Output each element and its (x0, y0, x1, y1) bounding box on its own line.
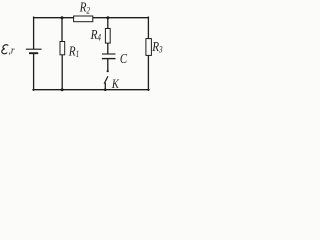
wire capacitor to switch contact (107, 59, 109, 71)
resistor R2 (74, 16, 93, 22)
switch K top contact dot (107, 70, 109, 72)
junction node top rail / R1 branch (61, 16, 64, 19)
wire middle branch top (107, 17, 109, 28)
background (0, 0, 164, 98)
wire right branch top (147, 17, 149, 38)
svg-text:,r: ,r (9, 45, 15, 57)
svg-text:C: C (120, 51, 128, 66)
wire switch bottom stub (104, 83, 106, 90)
capacitor C bottom plate (102, 58, 116, 60)
wire left branch lower (battery bottom) (33, 54, 35, 90)
svg-text:K: K (111, 77, 120, 91)
wire R4 to capacitor (107, 43, 109, 53)
wire bottom rail (33, 89, 149, 91)
resistor R3 (146, 39, 152, 56)
resistor R4 (105, 29, 110, 44)
battery cell E,r long plate (26, 48, 42, 50)
junction node top rail / middle branch (106, 16, 109, 19)
wire left branch upper (battery top) (33, 17, 35, 49)
junction node bottom rail / switch branch (104, 88, 107, 91)
label EMF script E (2, 45, 8, 54)
switch K blade (104, 76, 108, 83)
capacitor C top plate (102, 53, 116, 55)
wire R1 branch bottom (61, 55, 63, 90)
battery cell E,r short thick plate (29, 52, 38, 54)
wire top rail right segment (93, 17, 149, 19)
junction node bottom rail / R1 branch (61, 88, 64, 91)
wire top rail left segment (34, 17, 74, 19)
wire R1 branch top (61, 17, 63, 41)
wire right branch bottom (147, 55, 149, 90)
resistor R1 (60, 42, 65, 55)
